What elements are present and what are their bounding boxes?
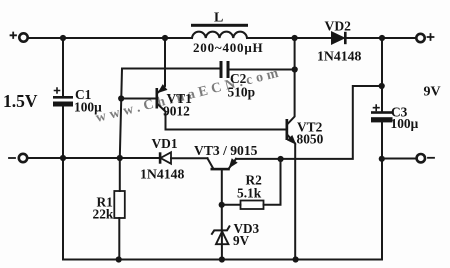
inductor L	[191, 24, 248, 38]
node VT1 emitter top	[162, 35, 168, 41]
node C2/VT2 collector	[292, 66, 298, 72]
wire R1 upper	[119, 158, 121, 191]
wire output right vertical	[381, 38, 383, 260]
svg-text:VT3 / 9015: VT3 / 9015	[194, 143, 258, 158]
terminal - input left	[19, 154, 27, 162]
resistor R1	[114, 191, 125, 218]
wire bottom rail	[63, 259, 382, 261]
svg-text:VD1: VD1	[152, 136, 178, 151]
node (63,158)	[60, 155, 66, 161]
svg-text:22k: 22k	[93, 207, 114, 222]
wire VT3 emitter to output node	[236, 86, 382, 159]
svg-text:VD2: VD2	[325, 19, 352, 34]
svg-text:5.1k: 5.1k	[237, 186, 262, 201]
node output plus C3	[379, 83, 385, 89]
node VT1 base tap	[118, 95, 124, 101]
svg-text:L: L	[214, 11, 223, 26]
svg-text:9V: 9V	[233, 233, 250, 248]
node (120,158)	[117, 155, 123, 161]
transistor VT3	[208, 158, 237, 230]
wire R2 vertical	[264, 159, 281, 205]
terminal + input left	[19, 33, 27, 41]
terminal + output right	[416, 34, 424, 42]
diode VD1	[159, 152, 171, 163]
resistor R2	[241, 201, 264, 210]
node R2 top	[278, 156, 284, 162]
wire minus rail to VD1	[27, 157, 159, 159]
node R1 bottom	[116, 256, 122, 262]
wire C2 feedback left	[120, 69, 220, 159]
wire C2 right	[230, 69, 295, 71]
transistor VT1	[156, 38, 286, 130]
svg-text:1N4148: 1N4148	[317, 49, 362, 64]
svg-text:9012: 9012	[163, 104, 190, 119]
svg-text:1.5V: 1.5V	[3, 91, 38, 111]
svg-text:100μ: 100μ	[391, 116, 419, 131]
svg-text:100μ: 100μ	[74, 100, 102, 115]
wire C1 branch upper	[62, 38, 64, 96]
wire VD1 to VT3	[171, 157, 208, 159]
capacitor C1	[53, 88, 73, 107]
svg-text:1N4148: 1N4148	[140, 167, 185, 182]
transistor VT2	[286, 38, 296, 260]
wire C1 branch lower	[62, 107, 64, 260]
node minus output	[379, 156, 385, 162]
wire R1 lower	[118, 218, 120, 260]
terminal - output right	[417, 154, 425, 162]
wire top rail mid	[247, 37, 332, 39]
svg-text:9V: 9V	[424, 85, 441, 100]
wire to minus terminal	[382, 158, 417, 160]
capacitor C3	[371, 105, 393, 122]
node top rail VT2 collector	[292, 35, 298, 41]
diode VD2	[332, 32, 347, 44]
wire R2 left	[222, 204, 241, 206]
wire top rail right	[347, 37, 416, 39]
svg-text:510p: 510p	[228, 85, 256, 100]
zener diode VD3	[212, 226, 230, 259]
node C1 top	[60, 35, 66, 41]
wire top rail left	[28, 37, 192, 39]
svg-text:8050: 8050	[297, 132, 324, 147]
node VT3 base / R2	[219, 202, 225, 208]
wire VT1 base	[121, 98, 156, 100]
node top-right junction	[379, 35, 385, 41]
node VT2 emitter bottom	[293, 256, 299, 262]
capacitor C2	[220, 61, 230, 78]
node VD3 bottom	[219, 256, 225, 262]
svg-text:200~400μH: 200~400μH	[193, 40, 263, 55]
